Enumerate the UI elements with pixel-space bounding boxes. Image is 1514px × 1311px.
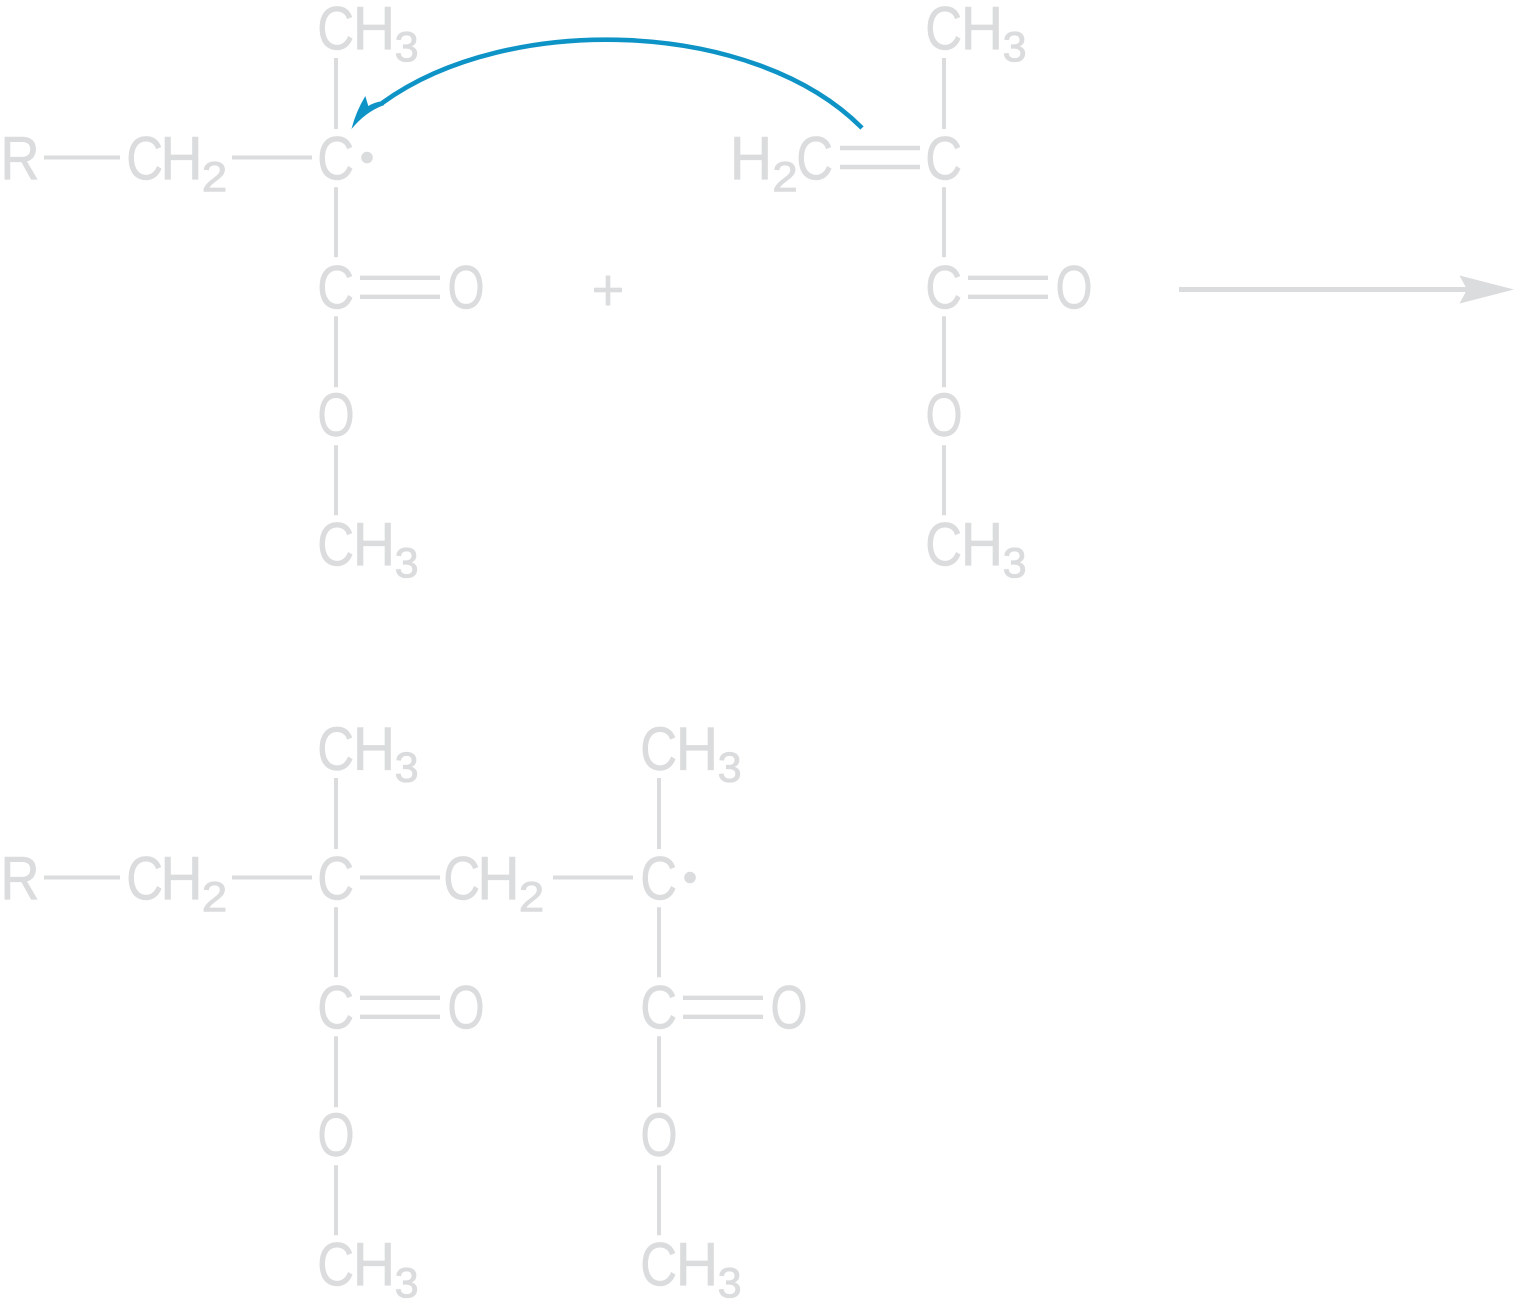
atom label CH3 ester methyl bottom-left <box>320 1242 417 1297</box>
bond CH2-C bottom first <box>232 876 312 880</box>
atom label R top-left <box>5 137 37 179</box>
bond O-CH3 bottom-right <box>657 1165 661 1235</box>
curved arrow (electron pair attack, blue) <box>352 40 863 129</box>
double bond C=C top-right <box>840 148 920 167</box>
bond C-O ester bottom-left <box>334 1036 338 1107</box>
double bond C=O bottom-right <box>683 998 763 1017</box>
atom label O carbonyl bottom-left <box>450 985 482 1028</box>
bond CH2-C bottom second <box>553 876 633 880</box>
bond CH3-C bottom-right <box>657 778 661 849</box>
radical dot bottom <box>684 872 696 884</box>
bond C-C(=O) top-left <box>334 187 338 257</box>
bond C-O ester top-left <box>334 316 338 387</box>
bond R-CH2 bottom <box>44 876 120 880</box>
plus sign <box>594 276 622 306</box>
atom label C radical bottom <box>643 856 675 899</box>
atom label CH2 bottom first <box>129 856 225 911</box>
atom label C vinyl top-right <box>928 136 960 179</box>
atom label O ester bottom-left <box>320 1113 352 1156</box>
atom label CH2 bottom second <box>446 856 542 911</box>
atom label CH3 methyl bottom-right <box>643 727 740 782</box>
atom label CH3 methyl top-left <box>320 6 417 61</box>
atom label C carbonyl bottom-right <box>643 985 675 1028</box>
bond C-C(=O) bottom-right <box>657 907 661 977</box>
bond CH3-C bottom-left <box>334 778 338 849</box>
atom label O ester top-right <box>928 393 960 436</box>
atom label CH2 top-left <box>129 136 225 191</box>
radical dot top-left <box>361 152 373 164</box>
bond C-O ester top-right <box>942 316 946 387</box>
bond C-O ester bottom-right <box>657 1036 661 1107</box>
atom label O ester top-left <box>320 393 352 436</box>
double bond C=O top-right <box>968 278 1048 297</box>
atom label CH3 ester methyl top-right <box>928 522 1025 577</box>
double bond C=O top-left <box>360 278 440 297</box>
atom label C carbonyl bottom-left <box>320 985 352 1028</box>
reaction arrow (yields) <box>1179 276 1514 304</box>
bond C-CH2 bottom <box>360 876 440 880</box>
atom label C carbonyl top-right <box>928 265 960 308</box>
atom label O carbonyl bottom-right <box>773 985 805 1028</box>
bond C-C(=O) top-right <box>942 187 946 257</box>
atom label CH3 methyl top-right <box>928 6 1025 61</box>
atom label CH3 ester methyl bottom-right <box>643 1242 740 1297</box>
bond O-CH3 top-left <box>334 445 338 515</box>
bond R-CH2 top-left <box>44 156 120 160</box>
bond O-CH3 bottom-left <box>334 1165 338 1235</box>
bond CH3-C top-left <box>334 58 338 129</box>
atom label C quaternary bottom <box>320 856 352 899</box>
atom label H2C top-right <box>735 136 832 191</box>
atom label CH3 ester methyl top-left <box>320 522 417 577</box>
atom label O carbonyl top-right <box>1058 265 1090 308</box>
atom label C radical top-left <box>320 136 352 179</box>
bond CH3-C top-right <box>942 58 946 129</box>
atom label R bottom <box>5 857 37 899</box>
bond CH2-C top-left <box>232 156 312 160</box>
atom label C carbonyl top-left <box>320 265 352 308</box>
atom label O carbonyl top-left <box>450 265 482 308</box>
bond C-C(=O) bottom-left <box>334 907 338 977</box>
atom label CH3 methyl bottom-left <box>320 727 417 782</box>
bond O-CH3 top-right <box>942 445 946 515</box>
double bond C=O bottom-left <box>360 998 440 1017</box>
atom label O ester bottom-right <box>643 1113 675 1156</box>
